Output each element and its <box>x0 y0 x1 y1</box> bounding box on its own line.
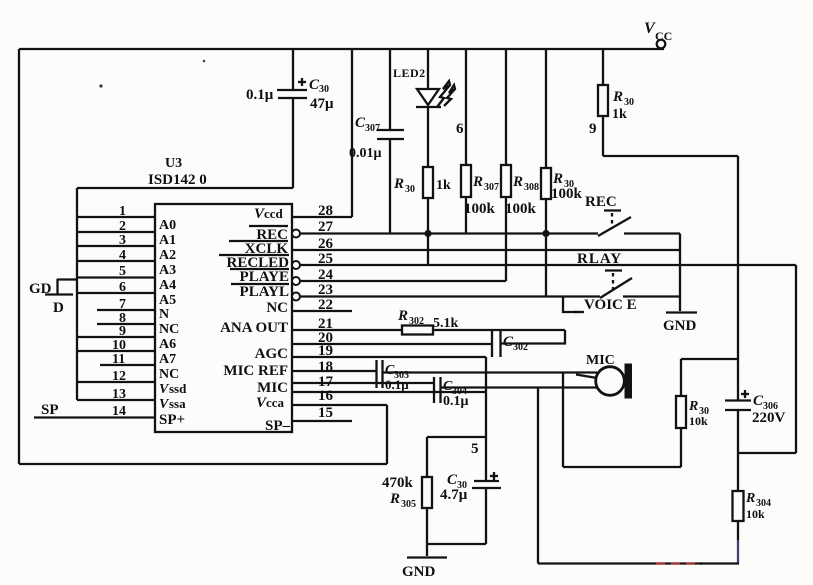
wire pin15 to bottom return <box>291 404 387 406</box>
svg-text:30: 30 <box>319 84 329 95</box>
label R305 <box>389 491 416 510</box>
svg-text:A0: A0 <box>159 218 176 233</box>
capacitor C304 plates <box>434 377 441 403</box>
svg-text:SP+: SP+ <box>159 412 185 428</box>
resistor R308 body <box>501 165 511 197</box>
wire bottom rail red dashes <box>654 562 702 564</box>
svg-text:A3: A3 <box>159 263 176 278</box>
LED D2 branch upper <box>427 49 429 89</box>
svg-text:27: 27 <box>318 219 334 235</box>
wire horizontal above IC <box>77 187 293 189</box>
microphone MIC <box>586 353 632 399</box>
wire pin14 SP <box>34 416 155 418</box>
label R304 <box>745 491 771 509</box>
svg-text:ISD142 0: ISD142 0 <box>148 172 207 188</box>
left pin bus <box>76 188 78 400</box>
wire pin1 <box>77 216 155 218</box>
IC label Vssd <box>159 381 187 397</box>
svg-text:A4: A4 <box>159 278 176 293</box>
label C304 <box>443 379 467 397</box>
wire right border upper <box>737 156 739 400</box>
svg-text:ANA OUT: ANA OUT <box>220 320 288 336</box>
wire pin19 AGC row <box>292 356 486 358</box>
svg-text:13: 13 <box>112 387 126 402</box>
wire GND branch vertical <box>679 234 681 312</box>
wire right border below C306 <box>737 410 739 491</box>
svg-text:0.1μ: 0.1μ <box>443 394 469 409</box>
svg-text:302: 302 <box>513 342 528 353</box>
wire REC to GND branch <box>624 232 680 234</box>
svg-text:307: 307 <box>365 123 380 134</box>
wire cap box top <box>427 436 486 438</box>
svg-text:100k: 100k <box>505 201 537 217</box>
wire pin28 riser to rail <box>351 49 353 217</box>
svg-text:10k: 10k <box>746 507 765 521</box>
wire cap box left lower <box>426 508 428 544</box>
resistor R30 100k body <box>541 168 551 199</box>
wire pin8 <box>97 323 155 325</box>
switch REC blade <box>598 217 631 236</box>
node GD tag <box>45 279 77 295</box>
IC label REC overline <box>249 226 288 243</box>
svg-text:0.1μ: 0.1μ <box>246 87 274 103</box>
resistor R307 branch <box>465 49 467 165</box>
svg-text:25: 25 <box>318 251 333 267</box>
LED D2 symbol <box>416 81 455 107</box>
wire right box right side <box>795 265 797 453</box>
capacitor C30 47u / 0.1u plates <box>277 78 307 98</box>
wire R302 to corner <box>433 329 565 331</box>
wire pin20 row <box>292 343 492 345</box>
label C307 <box>355 115 380 134</box>
IC label Vssa <box>159 396 186 412</box>
svg-text:NC: NC <box>266 300 288 316</box>
svg-text:CC: CC <box>655 29 672 43</box>
resistor R308 branch <box>505 49 507 165</box>
wire pin12 <box>77 381 155 383</box>
svg-text:47μ: 47μ <box>310 96 334 112</box>
IC label Vcca <box>256 395 285 411</box>
resistor R302 body <box>402 326 433 335</box>
scan speck upper <box>203 60 206 63</box>
ground GND middle <box>402 558 447 581</box>
LED to resistor lead <box>427 107 429 167</box>
svg-text:U3: U3 <box>165 156 182 171</box>
wire vertical to bottom return <box>386 405 388 464</box>
junction dot pin27 col428 <box>424 230 431 237</box>
wire pin5 <box>77 276 155 278</box>
resistor R30 1k body <box>423 167 433 198</box>
svg-text:470k: 470k <box>382 475 414 491</box>
svg-text:302: 302 <box>409 316 424 327</box>
svg-text:16: 16 <box>318 388 334 404</box>
capacitor C306 plates <box>725 390 751 410</box>
svg-text:R: R <box>389 491 400 507</box>
label R302 <box>397 308 424 327</box>
svg-text:15: 15 <box>318 405 333 421</box>
wire pin24 PLAYE row <box>300 280 506 282</box>
R307 lead to pin27 row <box>465 197 467 234</box>
svg-text:9: 9 <box>119 324 126 339</box>
svg-text:0.01μ: 0.01μ <box>349 146 382 161</box>
svg-text:GND: GND <box>663 318 697 334</box>
wire pin6 <box>77 292 155 294</box>
svg-text:5.1k: 5.1k <box>433 316 459 331</box>
wire pin17 row <box>292 382 433 384</box>
wire bottom rail right part <box>700 562 739 564</box>
svg-text:14: 14 <box>112 404 126 419</box>
resistor R30 10k body <box>676 396 686 428</box>
junction dot pin27 col546 <box>542 230 549 237</box>
pin27 circle <box>292 230 300 238</box>
wire pin21 ANA OUT row <box>292 329 402 331</box>
svg-text:R: R <box>612 89 623 105</box>
svg-text:MIC REF: MIC REF <box>223 363 288 379</box>
svg-text:4.7μ: 4.7μ <box>440 487 468 503</box>
svg-text:10k: 10k <box>689 414 708 428</box>
capacitor C307 branch lower <box>389 140 391 234</box>
R30 100k lead to pin23 row <box>545 199 547 297</box>
resistor R30 100k branch <box>545 49 547 168</box>
wire vertical cap branch upper <box>292 49 294 89</box>
wire pin16 drop x486 <box>485 357 487 480</box>
wire pin27 REC row <box>300 232 598 234</box>
wire pin23 PLAYL row <box>300 295 600 297</box>
svg-text:R: R <box>397 308 408 324</box>
IC label XCLK overline <box>229 241 288 257</box>
R308 lead to pin24 row <box>505 197 507 281</box>
svg-text:11: 11 <box>112 352 125 367</box>
label R30 100k <box>552 171 574 190</box>
svg-text:ssa: ssa <box>169 396 186 411</box>
svg-text:5: 5 <box>471 441 479 457</box>
IC label RECLED overline <box>219 255 289 271</box>
wire bottom rail left part <box>538 562 654 564</box>
svg-text:VOIC E: VOIC E <box>584 297 637 313</box>
resistor R30 1k right branch <box>602 49 604 85</box>
wire mic drop x563 <box>562 373 564 468</box>
svg-text:10: 10 <box>112 338 126 353</box>
svg-text:AGC: AGC <box>255 346 288 362</box>
wire corner down to C302 <box>501 330 565 344</box>
svg-text:R: R <box>552 171 563 187</box>
svg-text:GND: GND <box>402 564 436 580</box>
svg-text:308: 308 <box>524 182 539 193</box>
svg-text:R: R <box>745 491 755 506</box>
label R308 <box>512 174 539 193</box>
wire mic bias to border <box>681 358 738 360</box>
svg-text:ssd: ssd <box>169 381 187 396</box>
resistor R30 10k top lead <box>680 359 682 396</box>
IC U3 body <box>155 204 292 432</box>
label R30 right <box>612 89 634 108</box>
svg-text:GD: GD <box>29 281 52 297</box>
wire RLAY to GND branch <box>623 295 680 297</box>
resistor R304 body <box>733 491 744 521</box>
wire pin28 <box>292 216 352 218</box>
svg-text:NC: NC <box>159 322 179 337</box>
svg-text:SP–: SP– <box>265 418 291 434</box>
svg-text:26: 26 <box>318 236 334 252</box>
svg-text:9: 9 <box>589 121 597 137</box>
IC label Vccd <box>254 206 284 222</box>
pin24 circle <box>292 277 300 285</box>
svg-text:A7: A7 <box>159 352 176 367</box>
resistor R307 body <box>461 165 471 197</box>
wire pin7 <box>97 309 155 311</box>
label C306 <box>753 393 778 412</box>
wire bottom ground return <box>19 463 387 465</box>
svg-text:23: 23 <box>318 282 333 298</box>
wire cap box bottom <box>427 543 486 545</box>
svg-text:PLAYL: PLAYL <box>240 284 289 300</box>
label C30 cap <box>447 472 467 491</box>
wire right box bottom <box>738 452 796 454</box>
svg-text:1k: 1k <box>612 107 627 122</box>
wire pin22 <box>292 310 352 312</box>
svg-text:R: R <box>688 399 698 414</box>
svg-text:A6: A6 <box>159 337 176 352</box>
wire cap box right lower <box>485 488 487 544</box>
wire pin25 RECLED row <box>300 264 796 266</box>
svg-text:28: 28 <box>318 203 333 219</box>
svg-text:RLAY: RLAY <box>577 251 622 267</box>
label R30 1k <box>393 176 415 195</box>
svg-text:6: 6 <box>119 280 126 295</box>
R30 right lead down <box>602 116 604 156</box>
power VCC terminal <box>644 20 672 48</box>
svg-text:0.1μ: 0.1μ <box>385 377 409 392</box>
svg-text:A2: A2 <box>159 248 176 263</box>
wire mic drop x538 <box>537 388 539 564</box>
wire pin10 <box>77 350 155 352</box>
ground GND right <box>663 313 697 335</box>
node VOIC E tag <box>563 297 584 313</box>
svg-text:7: 7 <box>119 297 126 312</box>
IC label PLAYE overline <box>230 269 289 285</box>
wire mic wedge <box>576 375 597 379</box>
wire to right border <box>603 155 738 157</box>
svg-text:D: D <box>53 300 64 316</box>
pin25 circle <box>292 261 300 269</box>
capacitor C303 plates <box>377 360 383 388</box>
label C302 <box>503 334 528 353</box>
R30 lead to pin25 row <box>427 198 429 265</box>
switch RLAY blade <box>600 278 632 298</box>
switch REC contact dashes <box>604 211 621 230</box>
wire left border <box>18 49 20 464</box>
label C303 <box>385 363 409 381</box>
svg-text:6: 6 <box>456 121 464 137</box>
wire right border navy tail <box>737 540 739 564</box>
wire pin2 <box>77 231 155 233</box>
svg-text:ccd: ccd <box>264 206 284 221</box>
svg-text:1: 1 <box>119 204 126 219</box>
wire vertical cap branch lower <box>292 99 294 188</box>
svg-text:R: R <box>393 176 404 192</box>
svg-text:220V: 220V <box>752 410 786 426</box>
svg-text:4: 4 <box>119 248 126 263</box>
svg-text:19: 19 <box>318 343 333 359</box>
svg-text:NC: NC <box>159 367 179 382</box>
svg-text:30: 30 <box>405 184 415 195</box>
ground GND middle lead <box>426 544 428 556</box>
scan speck left <box>99 84 102 87</box>
resistor R305 body <box>422 477 432 508</box>
svg-text:3: 3 <box>119 233 126 248</box>
svg-text:A1: A1 <box>159 233 176 248</box>
svg-text:24: 24 <box>318 267 334 283</box>
svg-text:2: 2 <box>119 219 126 234</box>
label R307 <box>472 174 499 193</box>
svg-text:100k: 100k <box>551 186 583 202</box>
wire SPminus stub <box>292 420 352 422</box>
wire right border below R304 <box>737 521 739 540</box>
switch RLAY contact dashes <box>605 271 622 294</box>
svg-text:18: 18 <box>318 359 333 375</box>
svg-text:REC: REC <box>585 194 617 210</box>
svg-text:1k: 1k <box>436 178 451 193</box>
svg-text:5: 5 <box>119 264 126 279</box>
svg-text:A5: A5 <box>159 293 176 308</box>
wire pin11 <box>100 364 155 366</box>
pin23 circle <box>292 293 300 301</box>
wire mic upper lead from C303 <box>383 371 597 373</box>
svg-text:SP: SP <box>41 402 59 418</box>
resistor R30 1k right body <box>598 85 608 116</box>
svg-text:cca: cca <box>266 395 285 410</box>
wire pin3 <box>77 245 155 247</box>
svg-text:22: 22 <box>318 297 333 313</box>
wire pin4 <box>77 260 155 262</box>
wire mic lower lead from C304 <box>441 386 597 388</box>
wire mic ground rail <box>563 466 681 468</box>
svg-text:R: R <box>512 174 523 190</box>
wire pin26 XCLK row <box>292 249 680 251</box>
wire pin13 <box>77 399 155 401</box>
IC label PLAYL overline <box>231 284 289 300</box>
capacitor C307 branch upper <box>389 49 391 129</box>
svg-text:100k: 100k <box>464 201 496 217</box>
wire cap box left upper <box>426 437 428 477</box>
R30 10k bottom lead <box>680 428 682 467</box>
label R30 10k <box>688 399 709 417</box>
wire top VCC rail <box>19 48 664 50</box>
svg-text:N: N <box>159 307 169 322</box>
svg-text:307: 307 <box>484 182 499 193</box>
svg-text:R: R <box>472 174 483 190</box>
svg-text:MIC: MIC <box>586 353 615 368</box>
svg-text:PLAYE: PLAYE <box>240 269 289 285</box>
wire pin18 MIC REF row <box>292 370 376 372</box>
capacitor C302 plates <box>492 329 501 357</box>
svg-text:305: 305 <box>401 499 416 510</box>
svg-text:MIC: MIC <box>257 380 288 396</box>
capacitor C307 plates <box>377 130 404 139</box>
wire pin16 row <box>292 391 486 393</box>
svg-text:LED2: LED2 <box>393 66 426 80</box>
svg-text:12: 12 <box>112 369 126 384</box>
capacitor C305 4.7u plates <box>472 472 501 488</box>
wire pin9 <box>77 336 155 338</box>
